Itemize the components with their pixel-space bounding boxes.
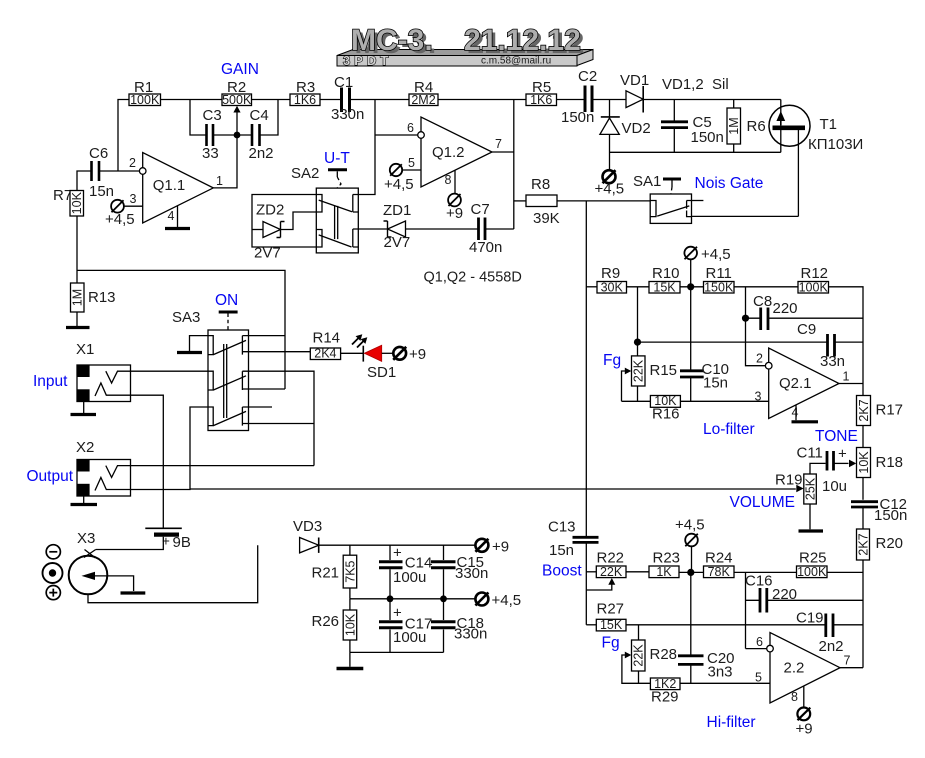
wire R2-R3 bbox=[252, 99, 291, 101]
main branch vertical to boost section bbox=[585, 201, 587, 536]
wire R5-C2 bbox=[557, 99, 585, 101]
diode VD2 (zener to +4,5) bbox=[600, 100, 651, 171]
capacitor C14 bbox=[379, 545, 432, 599]
svg-text:R17: R17 bbox=[876, 402, 904, 419]
branch down to C16/pin6 bbox=[745, 572, 747, 648]
wire R1-R2 bbox=[161, 99, 223, 101]
svg-text:100K: 100K bbox=[797, 565, 827, 579]
resistor R21 bbox=[312, 545, 358, 599]
svg-text:10K: 10K bbox=[70, 191, 84, 214]
svg-text:+: + bbox=[393, 605, 402, 622]
title text MC-3. 21.12.12 bbox=[351, 24, 584, 60]
svg-text:6: 6 bbox=[407, 121, 414, 135]
ground power section bbox=[337, 652, 364, 668]
connector X3 (DC jack) bbox=[69, 545, 258, 603]
svg-text:30K: 30K bbox=[601, 280, 624, 294]
wire R8 to SA1 with branch down bbox=[557, 200, 650, 202]
svg-text:X3: X3 bbox=[77, 530, 95, 547]
ground below X2 bbox=[71, 496, 98, 505]
wire C8 node to pin2 bbox=[746, 318, 766, 366]
svg-text:SA2: SA2 bbox=[291, 165, 319, 182]
resistor R20 bbox=[856, 529, 903, 668]
svg-text:1K6: 1K6 bbox=[530, 93, 552, 107]
capacitor C19 bbox=[796, 610, 863, 656]
capacitor C1 bbox=[331, 74, 364, 123]
ground at SA3 pole1 bbox=[177, 336, 208, 353]
svg-text:Input: Input bbox=[33, 373, 68, 390]
svg-text:C6: C6 bbox=[89, 145, 108, 162]
node junction C3/C4/wiper bbox=[234, 132, 241, 139]
svg-text:Fg: Fg bbox=[603, 352, 621, 369]
wire X2 ring to volume wiper (long) bbox=[131, 488, 796, 491]
wire R16 to pin3 bbox=[680, 400, 768, 402]
wire Q1.2 pin7 to node bbox=[492, 151, 514, 153]
svg-text:22K: 22K bbox=[600, 565, 623, 579]
wire R10-R11 bbox=[680, 286, 704, 288]
svg-text:ZD2: ZD2 bbox=[256, 202, 284, 219]
svg-text:15n: 15n bbox=[703, 375, 728, 392]
wire R23-R24 bbox=[679, 571, 704, 573]
power symbol +4,5 at Q1.1 pin3 bbox=[105, 200, 143, 228]
svg-text:ZD1: ZD1 bbox=[383, 202, 411, 219]
power symbol +9 at SD1 bbox=[393, 346, 426, 363]
svg-text:6: 6 bbox=[756, 635, 763, 649]
power symbol +4,5 above node bbox=[675, 517, 705, 573]
svg-text:150n: 150n bbox=[874, 507, 907, 524]
svg-text:+9: +9 bbox=[796, 721, 813, 738]
svg-text:R29: R29 bbox=[651, 689, 679, 706]
svg-text:SA1: SA1 bbox=[633, 173, 661, 190]
svg-text:Fg: Fg bbox=[602, 635, 620, 652]
resistor R19 (volume pot) bbox=[796, 474, 817, 529]
svg-text:C7: C7 bbox=[471, 201, 490, 218]
svg-text:2: 2 bbox=[129, 156, 136, 170]
svg-text:R21: R21 bbox=[312, 565, 340, 582]
bottom rail of gate network bbox=[610, 151, 781, 153]
LED SD1 bbox=[341, 334, 397, 381]
transistor T1 KП103И bbox=[769, 100, 863, 217]
svg-text:1K: 1K bbox=[656, 565, 672, 579]
svg-text:+4,5: +4,5 bbox=[675, 517, 705, 534]
svg-text:+: + bbox=[393, 545, 402, 562]
R22 wiper arrow bbox=[586, 578, 615, 590]
svg-text:470n: 470n bbox=[469, 239, 502, 256]
wire top loop to SA3 bbox=[77, 270, 285, 389]
wire +9 rail bbox=[319, 544, 476, 546]
capacitor C12 bbox=[851, 496, 907, 529]
op-amp Q1.1 bbox=[129, 153, 223, 224]
svg-text:9B: 9B bbox=[173, 534, 191, 551]
resistor R29 bbox=[650, 677, 680, 706]
svg-text:330n: 330n bbox=[331, 106, 364, 123]
resistor R11 bbox=[704, 265, 735, 294]
power symbol +9 at Q1.2 pin8 bbox=[446, 170, 463, 222]
power symbol +4,5 below VD2 bbox=[595, 170, 625, 197]
svg-text:7K5: 7K5 bbox=[343, 560, 357, 582]
capacitor C10 bbox=[680, 287, 729, 402]
resistor R2 (pot) bbox=[222, 79, 252, 107]
resistor R5 bbox=[526, 79, 557, 107]
branch down to C9 node bbox=[637, 287, 639, 342]
resistor R17 bbox=[857, 396, 904, 448]
svg-text:R16: R16 bbox=[652, 406, 680, 423]
resistor R27 bbox=[596, 601, 626, 633]
svg-text:150n: 150n bbox=[561, 109, 594, 126]
svg-text:33: 33 bbox=[202, 145, 219, 162]
capacitor C6 bbox=[89, 145, 114, 200]
wire R12 right to feedback column bbox=[829, 287, 864, 396]
svg-text:R6: R6 bbox=[747, 118, 766, 135]
svg-text:2: 2 bbox=[756, 352, 763, 366]
wire SA3 pole2 bottom to loop bbox=[249, 388, 286, 390]
svg-text:R14: R14 bbox=[313, 330, 341, 347]
wire R3-C1 bbox=[320, 99, 340, 101]
wire C2 to VD1 node bbox=[592, 99, 626, 101]
svg-text:15K: 15K bbox=[653, 280, 676, 294]
R15 wiper arrow bbox=[622, 368, 632, 402]
capacitor C5 bbox=[661, 100, 724, 153]
svg-text:Q1.2: Q1.2 bbox=[432, 144, 465, 161]
wire X2 tip to SA3 bbox=[131, 465, 315, 467]
node dot C8 bbox=[742, 315, 749, 322]
svg-text:39K: 39K bbox=[533, 210, 560, 227]
svg-text:X1: X1 bbox=[76, 341, 94, 358]
wire C6 right to pin2 bbox=[99, 170, 140, 172]
capacitor C18 bbox=[431, 599, 487, 653]
polarity symbol minus bbox=[46, 545, 60, 559]
svg-text:c.m.58@mail.ru: c.m.58@mail.ru bbox=[481, 56, 551, 67]
capacitor C15 bbox=[431, 545, 488, 599]
zener diode ZD1 bbox=[358, 202, 478, 251]
capacitor C16 bbox=[745, 573, 863, 613]
resistor R4 bbox=[409, 79, 438, 107]
svg-text:SD1: SD1 bbox=[367, 364, 396, 381]
svg-text:VD1,2 Sil: VD1,2 Sil bbox=[662, 76, 729, 93]
svg-text:4: 4 bbox=[792, 406, 799, 420]
wire SA3 pole3 bottom bbox=[249, 423, 315, 425]
svg-text:2n2: 2n2 bbox=[249, 145, 274, 162]
svg-text:VD1: VD1 bbox=[620, 72, 649, 89]
wire Q2.1 pin1 bbox=[839, 383, 863, 385]
svg-text:GAIN: GAIN bbox=[221, 61, 259, 78]
svg-text:SA3: SA3 bbox=[172, 309, 200, 326]
svg-text:10u: 10u bbox=[822, 478, 847, 495]
capacitor C9 bbox=[638, 321, 864, 370]
svg-text:C16: C16 bbox=[745, 573, 773, 590]
wire to R8 bbox=[514, 200, 526, 202]
resistor R6 bbox=[727, 100, 766, 153]
switch SA2 bbox=[291, 165, 358, 253]
svg-text:+4,5: +4,5 bbox=[701, 246, 731, 263]
svg-text:R8: R8 bbox=[531, 176, 550, 193]
diode VD3 bbox=[293, 518, 322, 553]
svg-text:R15: R15 bbox=[650, 362, 678, 379]
svg-text:220: 220 bbox=[773, 300, 798, 317]
capacitor C2 bbox=[561, 68, 597, 126]
node vertical Q1.2 output bbox=[513, 100, 515, 230]
svg-text:3PDT: 3PDT bbox=[343, 53, 392, 68]
svg-text:2M2: 2M2 bbox=[411, 93, 435, 107]
node dot C14 rail bbox=[387, 595, 394, 602]
wire C4 up to R2-R3 wire bbox=[260, 100, 279, 136]
svg-text:+9: +9 bbox=[446, 205, 463, 222]
svg-text:VD3: VD3 bbox=[293, 518, 322, 535]
capacitor C13 bbox=[548, 519, 599, 625]
resistor R8 bbox=[526, 176, 560, 227]
svg-text:C11: C11 bbox=[797, 445, 823, 462]
wire R4-R5 bbox=[438, 99, 526, 101]
bottom rail bbox=[350, 651, 444, 653]
capacitor C8 bbox=[746, 293, 864, 330]
svg-text:2K4: 2K4 bbox=[314, 347, 336, 361]
svg-text:R26: R26 bbox=[312, 613, 340, 630]
resistor R1 bbox=[129, 79, 161, 107]
wire R22 left bbox=[586, 571, 596, 573]
svg-text:100u: 100u bbox=[393, 629, 426, 646]
resistor R3 bbox=[290, 79, 320, 107]
svg-text:5: 5 bbox=[755, 671, 762, 685]
svg-text:КП103И: КП103И bbox=[808, 136, 863, 153]
wire Q2.2 pin7 bbox=[840, 667, 863, 669]
svg-text:8: 8 bbox=[445, 173, 452, 187]
resistor R13 bbox=[71, 283, 116, 312]
svg-text:2.2: 2.2 bbox=[784, 660, 805, 677]
wire branch down to SA2/pin6 bbox=[358, 100, 375, 195]
switch SA3 bbox=[172, 309, 249, 431]
svg-text:C9: C9 bbox=[797, 321, 816, 338]
svg-text:3: 3 bbox=[130, 192, 137, 206]
resistor R24 bbox=[704, 550, 735, 579]
svg-text:VD2: VD2 bbox=[622, 120, 651, 137]
wire R27 left bbox=[586, 624, 596, 626]
svg-text:100u: 100u bbox=[393, 569, 426, 586]
svg-text:R27: R27 bbox=[597, 601, 625, 618]
svg-text:+4,5: +4,5 bbox=[105, 211, 135, 228]
svg-text:+4,5: +4,5 bbox=[492, 592, 522, 609]
svg-text:R20: R20 bbox=[876, 535, 904, 552]
resistor R10 bbox=[649, 265, 680, 294]
svg-text:2n2: 2n2 bbox=[819, 638, 844, 655]
svg-text:C3: C3 bbox=[203, 107, 222, 124]
svg-text:1K6: 1K6 bbox=[294, 93, 316, 107]
svg-text:2V7: 2V7 bbox=[254, 245, 281, 262]
wire SA3 pole2 right to X2 tip bbox=[249, 371, 315, 465]
zener diode ZD2 bbox=[252, 202, 316, 262]
svg-text:U-T: U-T bbox=[324, 150, 350, 167]
svg-text:2K7: 2K7 bbox=[857, 399, 871, 421]
svg-text:X2: X2 bbox=[76, 439, 94, 456]
ground at Q1.1 pin4 bbox=[165, 206, 190, 229]
resistor R23 bbox=[649, 550, 680, 579]
wire C3-C4 with junction bbox=[213, 134, 252, 136]
svg-text:R18: R18 bbox=[876, 454, 904, 471]
svg-text:R28: R28 bbox=[650, 646, 678, 663]
svg-text:1M: 1M bbox=[71, 289, 85, 306]
svg-text:C13: C13 bbox=[548, 519, 576, 536]
capacitor C4 bbox=[249, 107, 274, 162]
svg-text:ON: ON bbox=[215, 292, 238, 309]
wire R9 left bbox=[586, 286, 597, 288]
svg-text:100K: 100K bbox=[799, 280, 829, 294]
op-amp Q2.1 bbox=[755, 348, 850, 420]
wire R7 to R13 bbox=[76, 216, 78, 283]
wire SA3 pole1 top to loop bbox=[249, 335, 286, 337]
resistor R22 (boost pot) bbox=[596, 550, 626, 579]
svg-text:330n: 330n bbox=[454, 626, 487, 643]
svg-text:15n: 15n bbox=[89, 183, 114, 200]
capacitor C3 bbox=[202, 107, 222, 162]
svg-text:330n: 330n bbox=[455, 565, 488, 582]
wire R1 left drop to pin2 node bbox=[118, 100, 129, 172]
resistor R18 (tone pot) bbox=[857, 448, 904, 500]
R2 wiper arrow bbox=[233, 106, 240, 135]
wire R9-R10 bbox=[627, 286, 650, 288]
svg-text:C19: C19 bbox=[796, 610, 824, 627]
svg-text:+9: +9 bbox=[409, 346, 426, 363]
svg-text:5: 5 bbox=[408, 156, 415, 170]
svg-text:Lo-filter: Lo-filter bbox=[703, 421, 755, 438]
capacitor C11 (10u) bbox=[797, 445, 857, 496]
svg-text:2V7: 2V7 bbox=[384, 234, 411, 251]
wire R25 right bbox=[827, 571, 863, 573]
capacitor C7 bbox=[469, 201, 514, 256]
ground below R19 bbox=[799, 529, 824, 532]
wire SA1 to T1 source bbox=[692, 215, 799, 217]
resistor R7 bbox=[53, 187, 84, 216]
wire SA3 pole3 left to X2 ring bbox=[190, 407, 208, 489]
svg-text:3: 3 bbox=[755, 390, 762, 404]
svg-text:1: 1 bbox=[843, 370, 850, 384]
resistor R12 bbox=[798, 265, 829, 294]
svg-text:Q2.1: Q2.1 bbox=[779, 375, 812, 392]
jack X1 bbox=[77, 365, 131, 402]
svg-text:C2: C2 bbox=[578, 68, 597, 85]
svg-text:25K: 25K bbox=[803, 477, 817, 500]
wire X1 ring to battery bbox=[131, 395, 164, 527]
wire SA3 pole1 to R14 bbox=[249, 351, 311, 353]
diode VD1 bbox=[620, 72, 649, 113]
resistor R25 bbox=[797, 550, 828, 579]
switch SA1 bbox=[633, 173, 703, 223]
jack X2 bbox=[77, 460, 131, 497]
svg-text:500K: 500K bbox=[222, 93, 252, 107]
wire R29 to pin5 bbox=[680, 682, 770, 684]
node dot R23/R24 bbox=[687, 569, 694, 576]
svg-text:C4: C4 bbox=[250, 107, 269, 124]
svg-text:3n3: 3n3 bbox=[708, 664, 733, 681]
svg-text:150K: 150K bbox=[704, 280, 734, 294]
title plate 3D slab bbox=[337, 50, 593, 67]
power symbol +4,5 above node bbox=[684, 246, 730, 287]
power symbol +9 at Q2.2 pin8 bbox=[796, 686, 813, 738]
node dot C9 bbox=[634, 339, 641, 346]
svg-text:7: 7 bbox=[844, 654, 851, 668]
wire branch down to C3 bbox=[190, 100, 206, 136]
svg-text:Boost: Boost bbox=[542, 563, 582, 580]
svg-text:21.12.12: 21.12.12 bbox=[464, 24, 581, 57]
svg-text:Nois Gate: Nois Gate bbox=[695, 175, 764, 192]
node dot C15 rail bbox=[440, 595, 447, 602]
svg-text:22K: 22K bbox=[632, 644, 646, 667]
op-amp Q1.2 bbox=[407, 117, 502, 187]
resistor R16 bbox=[650, 394, 680, 422]
outer loop with ZD2 bbox=[252, 195, 316, 248]
svg-text:Hi-filter: Hi-filter bbox=[707, 714, 756, 731]
wire pin6 bbox=[746, 648, 767, 650]
wire R11-R12 bbox=[734, 286, 798, 288]
svg-text:+4,5: +4,5 bbox=[384, 176, 414, 193]
svg-text:78K: 78K bbox=[708, 565, 731, 579]
svg-text:2K7: 2K7 bbox=[856, 533, 870, 555]
svg-text:100K: 100K bbox=[130, 93, 160, 107]
wire X1 tip to SA3 bbox=[131, 370, 209, 372]
svg-text:1M: 1M bbox=[727, 117, 741, 134]
svg-text:33n: 33n bbox=[820, 353, 845, 370]
svg-text:22K: 22K bbox=[632, 359, 646, 382]
wire R16 left bbox=[622, 400, 651, 402]
polarity symbol plus bbox=[46, 586, 60, 600]
svg-text:+9: +9 bbox=[492, 539, 509, 556]
wire C1-R4 bbox=[350, 99, 410, 101]
wire branch to pin6 bbox=[375, 134, 418, 136]
wire R27 to C19 row bbox=[626, 624, 826, 626]
wire R22-R23 bbox=[626, 571, 649, 573]
wire R24-R25 bbox=[734, 571, 797, 573]
svg-text:+4,5: +4,5 bbox=[595, 181, 625, 198]
capacitor C17 bbox=[379, 599, 432, 653]
power symbol +9 rail bbox=[475, 539, 509, 556]
resistor R14 bbox=[310, 330, 340, 361]
polarity symbol center pin bbox=[43, 563, 63, 583]
svg-text:Q1.1: Q1.1 bbox=[153, 177, 186, 194]
power symbol +4,5 at Q1.2 pin5 bbox=[384, 164, 421, 193]
svg-text:15n: 15n bbox=[549, 542, 574, 559]
power symbol +4,5 rail bbox=[475, 592, 521, 609]
capacitor C20 bbox=[678, 572, 735, 683]
node dot R10/R11 bbox=[687, 283, 694, 290]
battery 9B bbox=[96, 528, 191, 551]
wire Q1.1 pin1 to R2 wiper bbox=[213, 135, 237, 188]
resistor R26 bbox=[312, 599, 358, 653]
wire +4,5 rail bbox=[350, 598, 475, 600]
svg-text:7: 7 bbox=[495, 137, 502, 151]
resistor R28 bbox=[632, 625, 678, 684]
ground at Q2.1 pin4 bbox=[792, 405, 819, 422]
svg-text:10K: 10K bbox=[343, 613, 357, 636]
svg-text:Q1,Q2 - 4558D: Q1,Q2 - 4558D bbox=[424, 270, 522, 286]
svg-text:4: 4 bbox=[168, 209, 175, 223]
svg-text:10K: 10K bbox=[857, 451, 871, 474]
svg-text:15K: 15K bbox=[600, 618, 623, 632]
wire C6 left to R7 bbox=[77, 171, 92, 191]
svg-text:C8: C8 bbox=[753, 293, 772, 310]
ground below R13 bbox=[66, 312, 90, 328]
ground below X1 bbox=[71, 402, 97, 415]
svg-text:1: 1 bbox=[216, 174, 223, 188]
svg-text:R13: R13 bbox=[88, 289, 116, 306]
branch down to C8 bbox=[745, 287, 747, 318]
op-amp Q2.2 bbox=[755, 633, 851, 705]
svg-text:T1: T1 bbox=[820, 116, 838, 133]
resistor R9 bbox=[597, 265, 627, 294]
svg-text:8: 8 bbox=[791, 690, 798, 704]
svg-text:+: + bbox=[838, 446, 847, 463]
svg-text:150n: 150n bbox=[691, 129, 724, 146]
svg-text:VOLUME: VOLUME bbox=[730, 494, 795, 511]
svg-text:TONE: TONE bbox=[815, 428, 858, 445]
resistor R15 (pot) bbox=[632, 342, 678, 401]
R28 wiper arrow bbox=[622, 652, 651, 684]
